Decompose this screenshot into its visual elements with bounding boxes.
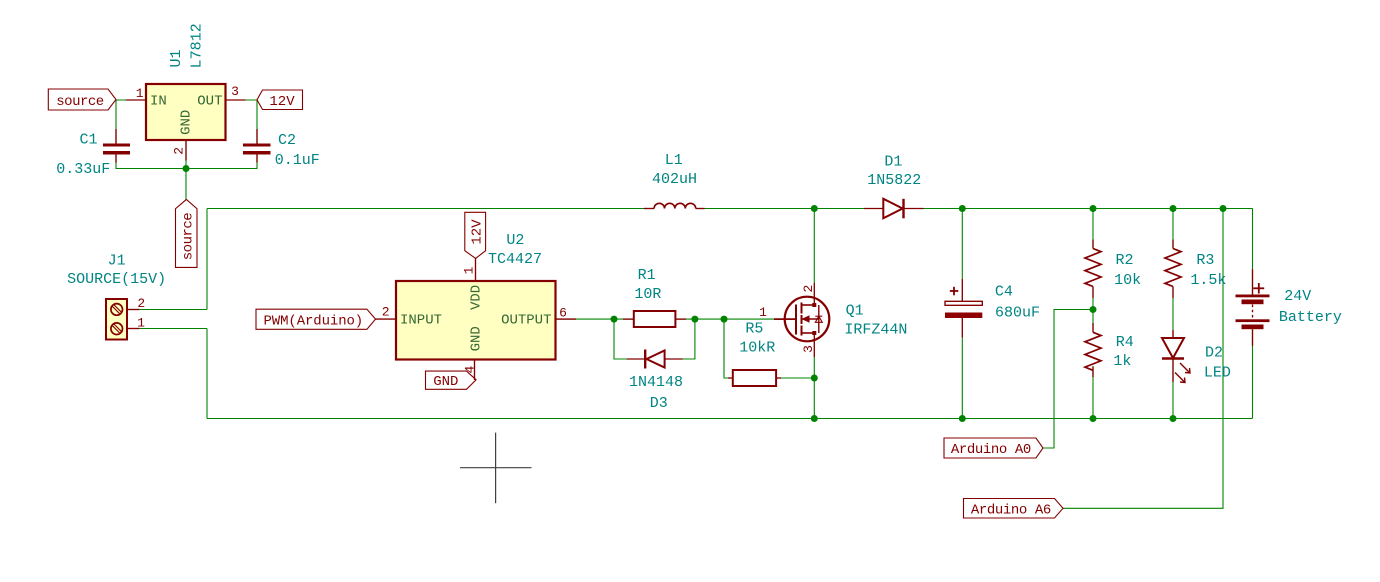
wire left vertical lower (J1 pin1 to bottom rail) — [206, 329, 208, 419]
svg-text:1k: 1k — [1113, 353, 1131, 370]
svg-text:6: 6 — [559, 306, 567, 321]
global label GND (below U2) — [426, 371, 477, 390]
wire top rail left segment — [207, 208, 654, 210]
pin number 3 (U1) — [231, 84, 239, 99]
C2 reference text — [278, 132, 296, 149]
node Q1 source R5 junction — [811, 375, 818, 382]
svg-text:source: source — [180, 213, 196, 261]
Q1 reference text — [846, 303, 864, 320]
wire gnd node to vertical source label — [185, 169, 187, 200]
node R3 top rail — [1170, 205, 1177, 212]
U1 value text L7812 — [189, 23, 206, 68]
capacitor C1 — [103, 129, 130, 163]
wire R5 branch — [724, 319, 733, 378]
wire right vertical battery bottom — [1252, 329, 1254, 418]
svg-text:0.33uF: 0.33uF — [56, 161, 110, 178]
pin name IN — [150, 93, 167, 109]
R1 value text 10R — [634, 286, 661, 303]
diode D1 — [864, 199, 924, 219]
wire Arduino A0 run — [1043, 310, 1093, 449]
svg-text:IRFZ44N: IRFZ44N — [844, 321, 907, 338]
J1 value text SOURCE(15V) — [67, 271, 166, 288]
wire R2 top — [1092, 209, 1094, 249]
svg-text:R2: R2 — [1115, 252, 1133, 269]
svg-text:2: 2 — [172, 147, 187, 155]
pin number 2 (U2) — [382, 304, 390, 319]
D3 value text 1N4148 — [629, 374, 683, 391]
battery BT1 — [1236, 269, 1270, 346]
svg-text:10R: 10R — [634, 286, 661, 303]
pin number 2 (Q1 drain) — [801, 285, 816, 293]
pin number 1 (U2) — [462, 266, 477, 274]
svg-text:GND: GND — [178, 110, 194, 135]
U2 pin 1 stub — [475, 258, 477, 281]
svg-text:1: 1 — [136, 86, 144, 101]
node Q1 drain top rail — [811, 205, 818, 212]
C4 value text 680uF — [995, 305, 1040, 322]
svg-text:3: 3 — [801, 345, 816, 353]
node Q1 source bottom rail — [811, 415, 818, 422]
Q1 value text IRFZ44N — [844, 321, 907, 338]
svg-text:2: 2 — [382, 304, 390, 319]
svg-text:402uH: 402uH — [652, 171, 697, 188]
U1 pin 3 OUT — [226, 99, 246, 101]
R2 value text 10k — [1114, 272, 1141, 289]
U2 value text TC4427 — [488, 251, 542, 268]
C1 reference text — [79, 132, 97, 149]
node R1 left junction — [611, 316, 618, 323]
L1 value text 402uH — [652, 171, 697, 188]
svg-text:1: 1 — [137, 315, 145, 330]
pin name OUTPUT — [501, 313, 551, 329]
global label 12V (vertical above U2) — [465, 212, 486, 258]
D3 reference text — [650, 395, 668, 412]
wire U1 gnd pin down — [185, 140, 187, 169]
pin number 1 (U1) — [136, 86, 144, 101]
svg-text:D2: D2 — [1205, 345, 1223, 362]
svg-text:680uF: 680uF — [995, 305, 1040, 322]
svg-text:L7812: L7812 — [189, 23, 206, 68]
node R5 top junction — [721, 316, 728, 323]
resistor R4 — [1085, 323, 1101, 377]
svg-text:IN: IN — [150, 93, 167, 109]
U2 pin 2 stub — [376, 318, 397, 320]
R5 value text 10kR — [739, 340, 775, 357]
C4 reference text — [995, 284, 1013, 301]
global label Arduino A6 — [964, 499, 1064, 519]
wire Q1 source vertical — [813, 357, 815, 419]
pin name GND (U2) — [468, 326, 484, 351]
node A6 top rail — [1220, 205, 1227, 212]
wire top rail right segment — [904, 208, 1253, 210]
capacitor C2 — [243, 129, 271, 163]
node R4 bottom rail — [1090, 415, 1097, 422]
battery value text Battery — [1279, 309, 1342, 326]
svg-text:3: 3 — [231, 84, 239, 99]
svg-text:U2: U2 — [506, 232, 524, 249]
global label 12V (right of U1) — [257, 90, 303, 110]
svg-text:1: 1 — [759, 305, 767, 320]
svg-text:INPUT: INPUT — [400, 313, 442, 329]
svg-text:2: 2 — [801, 285, 816, 293]
wire C2 branch vertical — [256, 100, 258, 144]
U2 pin 6 stub — [556, 318, 577, 320]
svg-text:TC4427: TC4427 — [488, 251, 542, 268]
crosshair marker — [460, 433, 532, 504]
J1 pin 1 stub — [127, 328, 139, 330]
pin number 3 (Q1 source) — [801, 345, 816, 353]
node R2 R4 mid junction — [1090, 306, 1097, 313]
wire left vertical upper (top rail to J1 pin2) — [206, 209, 208, 310]
J1 reference text — [108, 253, 126, 270]
L1 reference text — [665, 152, 683, 169]
R4 value text 1k — [1113, 353, 1131, 370]
svg-text:24V: 24V — [1284, 288, 1311, 305]
svg-text:PWM(Arduino): PWM(Arduino) — [263, 314, 363, 330]
svg-text:C1: C1 — [79, 132, 97, 149]
svg-text:Arduino A0: Arduino A0 — [951, 442, 1031, 458]
driver U2 body — [396, 281, 556, 360]
wire U1 input from source label — [116, 99, 146, 101]
svg-text:L1: L1 — [665, 152, 683, 169]
R4 reference text — [1116, 334, 1134, 351]
node D2 bottom rail — [1170, 415, 1177, 422]
wire C4 bottom — [961, 338, 963, 419]
J1 screw terminal 1 — [111, 323, 123, 335]
wire R3 top — [1172, 209, 1174, 249]
D1 value text 1N5822 — [867, 172, 921, 189]
wire J1 pin1 horizontal — [139, 328, 207, 330]
wire J1 pin2 horizontal — [139, 309, 207, 311]
regulator U1 body — [146, 84, 226, 140]
svg-text:0.1uF: 0.1uF — [275, 152, 320, 169]
U1 reference text — [168, 49, 185, 67]
R3 value text 1.5k — [1190, 272, 1226, 289]
wire C1 branch vertical — [115, 100, 117, 144]
wire C2 bottom to gnd node — [186, 155, 257, 169]
transistor Q1 — [774, 283, 829, 357]
svg-text:GND: GND — [468, 326, 484, 351]
wire Arduino A6 run — [1063, 209, 1223, 509]
pin number 1 (Q1 gate) — [759, 305, 767, 320]
U1 pin 1 IN — [126, 99, 146, 101]
diode D3 — [627, 350, 683, 369]
pin name OUT — [197, 93, 222, 109]
wire D2 bottom — [1172, 359, 1174, 419]
svg-text:OUT: OUT — [197, 93, 222, 109]
svg-text:source: source — [56, 94, 104, 110]
connector J1 body — [106, 299, 127, 340]
svg-text:R1: R1 — [638, 267, 656, 284]
R5 reference text — [745, 321, 763, 338]
svg-text:LED: LED — [1204, 365, 1231, 382]
svg-text:10k: 10k — [1114, 272, 1141, 289]
svg-text:OUTPUT: OUTPUT — [501, 313, 551, 329]
LED D2 — [1162, 330, 1190, 383]
svg-text:1N4148: 1N4148 — [629, 374, 683, 391]
svg-text:R5: R5 — [745, 321, 763, 338]
battery value text 24V — [1284, 288, 1311, 305]
global label Arduino A0 — [944, 438, 1043, 458]
pin name INPUT — [400, 313, 442, 329]
wire R5 right to Q1 source — [776, 377, 814, 379]
wire C4 top — [961, 209, 963, 280]
U2 pin 4 stub — [474, 360, 476, 381]
svg-text:D1: D1 — [884, 154, 902, 171]
node R2 top rail — [1090, 205, 1097, 212]
R3 reference text — [1196, 252, 1214, 269]
wire U1 output to 12V label — [226, 99, 258, 101]
U2 reference text — [506, 232, 524, 249]
svg-text:SOURCE(15V): SOURCE(15V) — [67, 271, 166, 288]
wire C1 bottom to gnd node — [116, 155, 186, 169]
wire D3 branch — [614, 319, 645, 359]
svg-text:1.5k: 1.5k — [1190, 272, 1226, 289]
svg-text:U1: U1 — [168, 49, 185, 67]
wire Q1 drain vertical — [813, 209, 815, 284]
pin number 6 (U2) — [559, 306, 567, 321]
J1 pin 2 stub — [127, 309, 139, 311]
svg-text:10kR: 10kR — [739, 340, 775, 357]
node C4 top rail — [959, 205, 966, 212]
wire R3 to D2 — [1172, 287, 1174, 339]
inductor L1 — [644, 203, 705, 208]
svg-text:Q1: Q1 — [846, 303, 864, 320]
svg-text:R4: R4 — [1116, 334, 1134, 351]
svg-text:C2: C2 — [278, 132, 296, 149]
wire D3 right to node — [665, 319, 695, 359]
svg-text:12V: 12V — [469, 219, 485, 245]
C2 value text — [275, 152, 320, 169]
node R1 right junction — [691, 316, 698, 323]
svg-text:1: 1 — [462, 266, 477, 274]
resistor R2 — [1085, 240, 1101, 299]
pin number 2 (J1) — [137, 296, 145, 311]
wire bottom rail — [207, 418, 1253, 420]
svg-text:D3: D3 — [650, 395, 668, 412]
D1 reference text — [884, 154, 902, 171]
wire right vertical battery top — [1252, 209, 1254, 295]
D2 value text LED — [1204, 365, 1231, 382]
C1 value text — [56, 161, 110, 178]
global label source (left) — [48, 89, 116, 110]
wire R1 right to gate — [675, 318, 774, 320]
wire R2 bottom to mid node — [1092, 287, 1094, 333]
pin name VDD — [468, 285, 484, 310]
svg-text:R3: R3 — [1196, 252, 1214, 269]
pin number 4 (U2) — [462, 366, 477, 374]
capacitor C4 — [945, 279, 982, 338]
wire top rail mid segment — [696, 208, 883, 210]
wire U2 output to R1 — [556, 318, 634, 320]
svg-text:4: 4 — [462, 366, 477, 374]
svg-text:2: 2 — [137, 296, 145, 311]
pin name GND (U1) — [178, 110, 194, 135]
resistor R5 — [728, 370, 781, 386]
pin number 2 (U1) — [172, 147, 187, 155]
R1 reference text — [638, 267, 656, 284]
svg-text:1N5822: 1N5822 — [867, 172, 921, 189]
U1 pin 2 GND — [185, 140, 187, 161]
J1 screw terminal 2 — [111, 304, 123, 316]
resistor R3 — [1165, 240, 1181, 299]
global label source (vertical) — [176, 199, 198, 267]
pin number 1 (J1) — [137, 315, 145, 330]
D2 reference text — [1205, 345, 1223, 362]
node C4 bottom rail — [959, 415, 966, 422]
node gnd junction — [183, 165, 190, 172]
svg-text:Arduino A6: Arduino A6 — [971, 503, 1051, 519]
svg-text:J1: J1 — [108, 253, 126, 270]
svg-text:GND: GND — [433, 374, 458, 390]
svg-text:Battery: Battery — [1279, 309, 1342, 326]
svg-text:C4: C4 — [995, 284, 1013, 301]
resistor R1 — [623, 311, 686, 327]
svg-text:VDD: VDD — [468, 285, 484, 310]
wire R4 bottom — [1092, 366, 1094, 418]
global label PWM(Arduino) — [256, 309, 376, 329]
svg-text:12V: 12V — [269, 94, 295, 110]
R2 reference text — [1115, 252, 1133, 269]
